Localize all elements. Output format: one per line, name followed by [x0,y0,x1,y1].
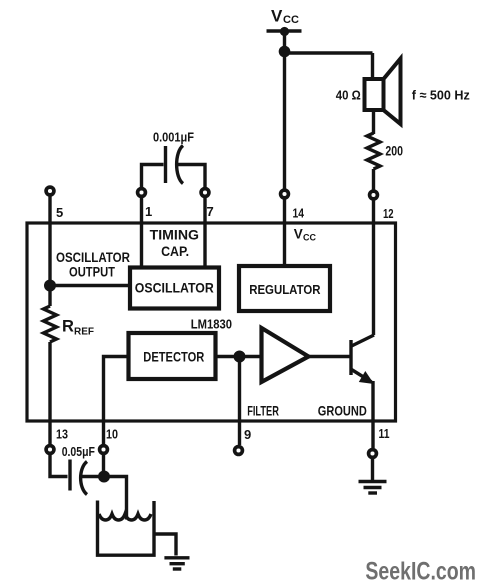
svg-text:FILTER: FILTER [247,402,279,418]
svg-text:40 Ω: 40 Ω [336,88,361,103]
svg-text:5: 5 [56,205,63,220]
svg-text:10: 10 [106,427,118,442]
svg-text:R: R [62,318,74,336]
svg-text:V: V [294,227,303,242]
svg-text:V: V [271,7,283,26]
svg-text:CC: CC [303,233,316,243]
svg-text:OUTPUT: OUTPUT [69,265,116,280]
svg-text:12: 12 [383,206,394,221]
svg-text:0.05μF: 0.05μF [62,444,95,459]
svg-text:CAP.: CAP. [161,244,189,259]
svg-text:OSCILLATOR: OSCILLATOR [135,280,214,296]
svg-text:f ≈ 500 Hz: f ≈ 500 Hz [412,88,470,103]
svg-text:OSCILLATOR: OSCILLATOR [56,250,130,265]
svg-text:CC: CC [283,14,299,26]
svg-text:7: 7 [207,204,214,219]
svg-text:DETECTOR: DETECTOR [143,348,204,364]
svg-text:9: 9 [244,427,251,442]
svg-text:14: 14 [293,205,305,220]
svg-text:REGULATOR: REGULATOR [249,283,320,297]
svg-text:REF: REF [74,327,94,338]
svg-text:TIMING: TIMING [150,228,199,243]
svg-text:11: 11 [379,426,390,441]
svg-text:1: 1 [145,204,152,219]
svg-text:GROUND: GROUND [318,402,367,418]
svg-text:SeekIC.com: SeekIC.com [365,557,476,585]
svg-text:13: 13 [56,427,68,442]
svg-text:200: 200 [385,144,403,159]
svg-text:0.001μF: 0.001μF [153,130,194,145]
svg-text:LM1830: LM1830 [191,316,232,331]
